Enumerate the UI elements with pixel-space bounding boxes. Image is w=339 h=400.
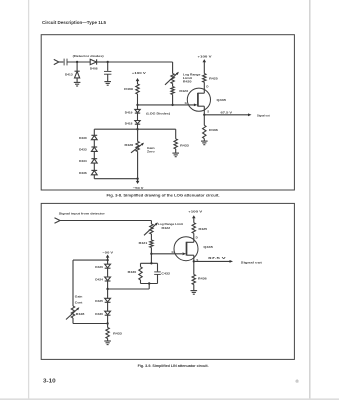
+100 V supply arrow (drain branch) — [203, 59, 207, 73]
label Q435 (fig2) — [203, 245, 213, 249]
label D436 — [79, 171, 87, 175]
resistor R425 — [203, 74, 206, 83]
node RC top — [150, 262, 152, 264]
diode D436 — [91, 170, 97, 178]
svg-text:R430: R430 — [128, 270, 137, 274]
diode D434 — [91, 159, 97, 171]
label R433 — [180, 143, 189, 147]
svg-text:D413: D413 — [65, 73, 73, 77]
label G (gate pin) — [185, 101, 188, 105]
transistor Q435 (FET fig2) — [174, 237, 198, 262]
diode D418 — [135, 121, 140, 130]
label D430 (fig2) — [95, 312, 103, 316]
wire source to R436 (fig2) — [193, 261, 195, 274]
label R436 — [209, 128, 218, 132]
wire R425 to drain (fig2) — [193, 233, 195, 242]
label Gain Zero — [147, 146, 155, 154]
node gate junction fig2 — [150, 253, 152, 255]
node R423/gate junction — [171, 104, 173, 106]
wire chain bottom to R433 — [107, 324, 109, 328]
svg-text:Zero: Zero — [147, 150, 155, 154]
svg-text:Q435: Q435 — [217, 98, 227, 102]
node diode chain mid junction — [106, 288, 108, 290]
svg-text:R420: R420 — [183, 80, 192, 84]
svg-text:D418: D418 — [125, 121, 133, 125]
label Log Range Limit R422 — [158, 222, 183, 230]
page right edge — [309, 0, 311, 399]
wire R428 top — [137, 129, 139, 141]
wire R420 to R423 — [172, 84, 174, 87]
svg-text:+100 V: +100 V — [132, 71, 147, 75]
svg-text:D424: D424 — [95, 278, 103, 282]
wire gate (LOG node to FET gate) — [138, 104, 195, 106]
ground below D413 — [74, 82, 81, 86]
svg-text:R409: R409 — [124, 87, 133, 91]
wire input to R422 branch — [60, 221, 151, 225]
label Q435 — [217, 98, 227, 102]
svg-text:D: D — [196, 236, 198, 240]
wire to gain branch — [73, 260, 108, 306]
page bottom shade — [0, 398, 339, 400]
label D433 — [79, 148, 87, 152]
label R421 — [139, 241, 148, 245]
node chain bottom junction — [106, 322, 108, 324]
label D426 — [95, 265, 103, 269]
label (Detector diodes) — [73, 54, 104, 58]
diode D430 — [91, 135, 97, 147]
svg-text:R422: R422 — [162, 226, 171, 230]
label D425 — [95, 299, 103, 303]
node LOG diodes bottom on rail — [136, 128, 138, 130]
svg-text:−50 V: −50 V — [133, 186, 145, 190]
label D (drain pin fig2) — [196, 236, 198, 240]
node source junction fig2 — [193, 260, 195, 262]
label R433 (fig2) — [113, 332, 122, 336]
label -50 V (fig1 bottom) — [133, 186, 145, 190]
label R409 — [124, 87, 133, 91]
svg-text:Signal input from detector: Signal input from detector — [59, 212, 106, 216]
label Signal out — [257, 114, 270, 118]
label Gain Cont — [75, 295, 83, 305]
label R423 — [179, 89, 188, 93]
variable resistor R428 Gain Cont — [66, 306, 79, 324]
label D424 — [95, 278, 103, 282]
wire R423 to gate node — [172, 95, 174, 105]
label R428 (fig2) — [76, 312, 85, 316]
diode D426 — [105, 264, 111, 277]
wire rail to R433 — [175, 129, 177, 139]
resistor R425 (fig2) — [192, 223, 195, 234]
svg-text:−50 V: −50 V — [103, 250, 115, 254]
capacitor (input coupling) — [64, 59, 67, 66]
svg-text:R425: R425 — [199, 227, 208, 231]
resistor R423 — [171, 87, 174, 95]
svg-text:+100 V: +100 V — [188, 210, 203, 214]
page left edge — [28, 0, 30, 399]
wire D408 to node B — [97, 61, 108, 63]
variable resistor R422 Log Range Limit — [144, 222, 158, 235]
label -50 V (fig2 top) — [103, 250, 115, 254]
-50 V supply arrow (fig1 bottom) — [136, 179, 140, 184]
+100 V supply arrow (R409 branch) — [136, 78, 140, 84]
wire source to signal out — [204, 113, 251, 116]
wire R428 bottom — [137, 152, 139, 179]
svg-text:+100 V: +100 V — [198, 54, 213, 58]
node supply/gain branch junction — [106, 259, 108, 261]
wire gain branch bottom — [73, 323, 108, 325]
svg-text:D: D — [206, 84, 208, 88]
svg-text:C432: C432 — [161, 271, 170, 275]
node RC bottom — [148, 282, 150, 284]
svg-text:Circuit Description—Type 1L5: Circuit Description—Type 1L5 — [42, 20, 106, 26]
diode D430 — [105, 311, 111, 323]
label Log Range Limit R420 — [183, 72, 201, 83]
svg-text:67.5 V: 67.5 V — [221, 110, 234, 114]
diode D413 — [75, 62, 80, 82]
wire bottom rail — [94, 178, 137, 180]
diode D433 — [91, 147, 97, 159]
label D408 — [90, 67, 98, 71]
resistor R430 — [139, 263, 142, 283]
capacitor C432 — [154, 263, 161, 283]
svg-text:D419: D419 — [125, 110, 133, 114]
ground below R433 (fig2) — [104, 341, 111, 345]
svg-text:Gain: Gain — [75, 295, 83, 299]
svg-text:D408: D408 — [90, 67, 98, 71]
svg-text:D430: D430 — [95, 312, 103, 316]
label R425 — [209, 77, 218, 81]
wire node B to R420 branch — [108, 62, 173, 74]
resistor R436 (fig2) — [192, 275, 195, 291]
svg-text:D433: D433 — [79, 148, 87, 152]
svg-text:D426: D426 — [95, 265, 103, 269]
wire chain top — [93, 129, 95, 135]
wire capacitor to node A — [67, 61, 90, 63]
svg-text:Fig. 3-9. Simplified LIN atten: Fig. 3-9. Simplified LIN attenuator circ… — [138, 364, 209, 368]
input arrowhead (signal in fig2) — [55, 218, 61, 223]
node B junction — [107, 61, 109, 63]
resistor R433 (fig2) — [106, 328, 109, 341]
diode D419 — [135, 109, 140, 120]
label S (source pin) — [207, 110, 209, 114]
svg-text:Cont: Cont — [75, 301, 83, 305]
wire R422 to R421 — [150, 234, 152, 240]
+100 V supply arrow (fig2) — [192, 215, 196, 223]
svg-text:Fig. 3-8. Simplified drawing o: Fig. 3-8. Simplified drawing of the LOG … — [107, 193, 220, 197]
variable resistor R420 Log Range Limit — [165, 72, 179, 85]
label R428 — [125, 143, 134, 147]
svg-text:R428: R428 — [125, 143, 134, 147]
svg-text:Signal out: Signal out — [257, 114, 270, 118]
node source junction — [203, 114, 205, 116]
label 67.5 V — [221, 110, 234, 114]
wire source to signal out fig2 — [194, 260, 233, 263]
ground below R436 (fig2) — [191, 291, 198, 295]
resistor R433 — [174, 139, 177, 153]
svg-text:67.5 V: 67.5 V — [208, 256, 227, 260]
wire input to capacitor — [59, 61, 64, 63]
wire RC bottom to diode chain node — [108, 284, 150, 290]
wire R425 to drain — [203, 82, 205, 93]
node A junction — [76, 61, 78, 63]
figure 2 border box — [41, 203, 294, 359]
resistor R409 — [136, 84, 139, 94]
label R436 (fig2) — [198, 277, 207, 281]
svg-text:R433: R433 — [180, 143, 189, 147]
label D434 — [79, 159, 87, 163]
label D413 — [65, 73, 73, 77]
label (LOG Diodes) — [146, 112, 170, 116]
diode D424 — [105, 277, 111, 289]
svg-text:(LOG Diodes): (LOG Diodes) — [146, 112, 170, 116]
svg-text:R425: R425 — [209, 77, 218, 81]
diode D425 — [105, 298, 111, 311]
wire chain mid to D425 — [107, 289, 109, 298]
svg-text:Signal out: Signal out — [241, 260, 262, 264]
label Signal input from detector — [59, 212, 106, 216]
label D (drain pin) — [206, 84, 208, 88]
label R425 (fig2) — [199, 227, 208, 231]
label R430 — [128, 270, 137, 274]
node LOG diodes top — [136, 104, 138, 106]
svg-text:D434: D434 — [79, 159, 87, 163]
capacitor shunt at node B — [104, 62, 111, 81]
svg-text:R436: R436 — [209, 128, 218, 132]
svg-text:R421: R421 — [139, 241, 148, 245]
+100 V supply label (fig2) — [188, 210, 203, 214]
label D418 — [125, 121, 133, 125]
label G (gate pin fig2) — [172, 250, 175, 254]
svg-text:R433: R433 — [113, 332, 122, 336]
wire top rail — [94, 128, 175, 130]
svg-text:(Detector diodes): (Detector diodes) — [73, 54, 104, 58]
svg-text:Q435: Q435 — [203, 245, 213, 249]
label C432 — [161, 271, 170, 275]
svg-text:D430: D430 — [79, 136, 87, 140]
node bottom rail junction — [136, 178, 138, 180]
wire gate fig2 — [151, 253, 182, 255]
svg-text:R423: R423 — [179, 89, 188, 93]
input arrowhead (signal in) — [54, 59, 59, 64]
+100 V supply label (drain branch) — [198, 54, 213, 58]
RC network top rail — [141, 262, 158, 264]
label D419 — [125, 110, 133, 114]
svg-text:D436: D436 — [79, 171, 87, 175]
resistor R436 — [203, 125, 206, 141]
svg-text:3-10: 3-10 — [43, 379, 56, 385]
label D430 — [79, 136, 87, 140]
svg-text:R428: R428 — [76, 312, 85, 316]
svg-text:R436: R436 — [198, 277, 207, 281]
+100 V supply label (R409 branch) — [132, 71, 147, 75]
resistor R421 — [150, 240, 153, 248]
ground below shunt capacitor — [104, 82, 111, 86]
transistor Q435 (FET) — [187, 88, 210, 115]
ground below R433 — [172, 153, 179, 157]
label 67.5 V (fig2) — [208, 256, 227, 260]
-50 V supply arrow (fig2) — [106, 255, 110, 265]
variable resistor R428 Gain Zero — [131, 142, 144, 153]
RC network bottom rail — [141, 283, 158, 285]
ground below R436 — [201, 141, 208, 145]
wire R421 to gate node — [150, 248, 152, 264]
diode D408 — [90, 59, 96, 64]
wire source to R436 — [203, 115, 205, 126]
label Signal out (fig2) — [241, 260, 262, 264]
svg-text:S: S — [207, 110, 209, 114]
figure 1 border box — [41, 35, 294, 190]
wire R409 to LOG node — [137, 94, 139, 109]
label S (source pin fig2) — [196, 258, 198, 262]
svg-text:D425: D425 — [95, 299, 103, 303]
